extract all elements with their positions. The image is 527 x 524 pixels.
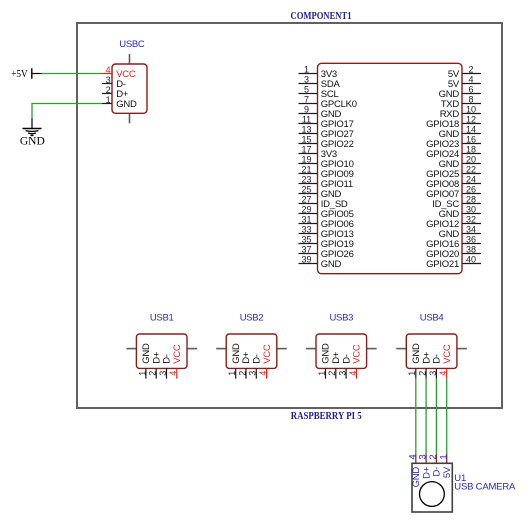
- svg-text:2: 2: [148, 371, 158, 376]
- svg-text:19: 19: [301, 154, 311, 164]
- svg-text:31: 31: [301, 214, 311, 224]
- USBC pin 2 (D+): [102, 85, 129, 100]
- svg-text:4: 4: [168, 371, 178, 376]
- wire USBC pin 1 to GND: [32, 104, 102, 119]
- svg-text:3: 3: [248, 371, 258, 376]
- USB3 pin 4 (VCC): [348, 344, 363, 379]
- IC pin 37 (GPIO26): [299, 244, 354, 260]
- USBC pin 1 (GND): [102, 95, 137, 110]
- IC pin 32 (GPIO12): [426, 214, 481, 230]
- USB1 pin 4 (VCC): [168, 344, 183, 379]
- USB1 pin 3 (D-): [158, 354, 173, 379]
- U1 pin 2 (D-) stub and number: [428, 454, 439, 464]
- svg-text:USB3: USB3: [329, 313, 353, 324]
- svg-text:1: 1: [407, 371, 417, 376]
- USB4 pin 3 (D-): [428, 354, 443, 379]
- IC pin 23 (GPIO11): [299, 174, 353, 190]
- connector USB3: [306, 313, 377, 379]
- IC pin 9 (GND): [299, 104, 342, 120]
- IC pin 26 (GPIO07): [426, 184, 481, 200]
- IC pin 28 (ID_SC): [432, 194, 481, 210]
- IC pin 38 (GPIO20): [426, 244, 481, 260]
- USB2 pin 3 (D-): [248, 354, 263, 379]
- IC pin 33 (GPIO13): [299, 224, 354, 240]
- IC pin 31 (GPIO06): [299, 214, 354, 230]
- IC pin 30 (GND): [439, 204, 481, 220]
- IC pin 1 (3V3): [299, 64, 337, 80]
- IC pin 24 (GPIO08): [426, 174, 481, 190]
- svg-text:4: 4: [468, 74, 473, 84]
- svg-text:3: 3: [304, 74, 309, 84]
- USB3 shield stem right: [367, 348, 377, 350]
- IC pin 35 (GPIO19): [299, 234, 354, 250]
- svg-text:38: 38: [466, 244, 476, 254]
- wire USB4 pin 2 to camera: [425, 379, 427, 454]
- svg-text:1: 1: [317, 371, 327, 376]
- sheet COMPONENT1 / RASPBERRY PI 5 outline: [77, 23, 502, 408]
- svg-text:20: 20: [466, 154, 476, 164]
- svg-text:RASPBERRY PI 5: RASPBERRY PI 5: [291, 411, 362, 422]
- USB3 pin 1 (GND): [317, 343, 332, 379]
- svg-text:21: 21: [301, 164, 311, 174]
- U1 body: [412, 463, 452, 512]
- connector USB1: [126, 313, 197, 379]
- svg-text:22: 22: [466, 164, 476, 174]
- svg-text:4: 4: [348, 371, 358, 376]
- USB3 shield stem left: [306, 348, 316, 350]
- USBC pin 3 (D-): [102, 75, 126, 90]
- svg-text:16: 16: [466, 134, 476, 144]
- IC raspberry pi 40-pin header: [299, 63, 482, 273]
- svg-text:4: 4: [438, 371, 448, 376]
- svg-text:36: 36: [466, 234, 476, 244]
- IC pin 39 (GND): [299, 254, 342, 270]
- svg-text:10: 10: [466, 104, 476, 114]
- IC pin 21 (GPIO09): [299, 164, 354, 180]
- svg-text:14: 14: [466, 124, 476, 134]
- svg-text:13: 13: [301, 124, 311, 134]
- svg-text:30: 30: [466, 204, 476, 214]
- svg-text:11: 11: [302, 114, 311, 124]
- svg-text:23: 23: [301, 174, 311, 184]
- svg-text:3: 3: [106, 75, 111, 85]
- IC pin 18 (GPIO24): [426, 144, 481, 160]
- svg-text:1: 1: [304, 64, 309, 74]
- svg-text:12: 12: [466, 114, 476, 124]
- camera U1 USB CAMERA: [407, 454, 516, 512]
- svg-text:4: 4: [106, 65, 111, 75]
- IC pin 36 (GPIO16): [426, 234, 481, 250]
- svg-text:28: 28: [466, 194, 476, 204]
- USB4 body: [406, 334, 457, 368]
- wire USB4 pin 4 to camera: [446, 379, 448, 454]
- wire +5V to USBC pin 4: [42, 73, 102, 75]
- IC pin 14 (GND): [439, 124, 481, 140]
- USB2 pin 4 (VCC): [258, 344, 273, 379]
- power symbol +5V: [11, 68, 42, 80]
- IC pin 19 (GPIO10): [299, 154, 354, 170]
- connector USB4: [396, 313, 467, 379]
- IC pin 2 (5V): [448, 64, 481, 80]
- svg-text:32: 32: [466, 214, 476, 224]
- svg-text:5: 5: [304, 84, 309, 94]
- svg-text:26: 26: [466, 184, 476, 194]
- svg-text:USBC: USBC: [119, 39, 145, 50]
- svg-text:15: 15: [301, 134, 311, 144]
- IC pin 6 (GND): [439, 84, 481, 100]
- IC pin 27 (ID_SD): [299, 194, 348, 210]
- svg-text:GND: GND: [116, 99, 137, 110]
- wire USB4 pin 3 to camera: [435, 379, 437, 454]
- svg-text:2: 2: [237, 371, 247, 376]
- svg-text:VCC: VCC: [172, 344, 183, 364]
- USB3 pin 2 (D+): [327, 351, 342, 379]
- svg-text:24: 24: [466, 174, 476, 184]
- USB1 body: [136, 334, 187, 368]
- IC pin 34 (GND): [439, 224, 481, 240]
- U1 pin 4 (GND) stub and number: [407, 454, 418, 464]
- IC pin 10 (RXD): [440, 104, 481, 120]
- IC pin 13 (GPIO27): [299, 124, 354, 140]
- svg-text:27: 27: [301, 194, 311, 204]
- svg-text:6: 6: [468, 84, 473, 94]
- IC pin 20 (GND): [439, 154, 481, 170]
- U1 pin 1 (5V) stub and number: [438, 454, 449, 464]
- USB3 pin 3 (D-): [338, 354, 353, 379]
- svg-text:VCC: VCC: [262, 344, 273, 364]
- USB2 body: [226, 334, 277, 368]
- USB2 pin 2 (D+): [237, 351, 252, 379]
- svg-text:29: 29: [301, 204, 311, 214]
- svg-text:2: 2: [468, 64, 473, 74]
- svg-text:17: 17: [301, 144, 311, 154]
- svg-text:GND: GND: [321, 259, 342, 270]
- svg-text:USB CAMERA: USB CAMERA: [454, 482, 516, 493]
- USB4 shield stem right: [457, 348, 467, 350]
- svg-text:40: 40: [466, 254, 476, 264]
- connector USB2: [216, 313, 287, 379]
- USBC shield stem top: [129, 54, 131, 64]
- IC pin 11 (GPIO17): [299, 114, 354, 130]
- svg-text:2: 2: [327, 371, 337, 376]
- svg-text:4: 4: [258, 371, 268, 376]
- USB3 body: [316, 334, 367, 368]
- svg-text:1: 1: [438, 454, 449, 459]
- svg-text:VCC: VCC: [352, 344, 363, 364]
- connector USBC: [102, 39, 147, 123]
- IC pin 15 (GPIO22): [299, 134, 354, 150]
- svg-text:34: 34: [466, 224, 476, 234]
- svg-text:USB4: USB4: [420, 313, 444, 324]
- U1 pin 3 (D+) stub and number: [418, 454, 429, 464]
- IC pin 4 (5V): [448, 74, 481, 90]
- svg-text:+5V: +5V: [11, 69, 28, 80]
- svg-text:25: 25: [301, 184, 311, 194]
- USB1 pin 1 (GND): [137, 343, 152, 379]
- svg-text:37: 37: [301, 244, 311, 254]
- svg-text:2: 2: [418, 371, 428, 376]
- USB2 pin 1 (GND): [227, 343, 242, 379]
- USB1 pin 2 (D+): [148, 351, 163, 379]
- svg-text:35: 35: [301, 234, 311, 244]
- USB4 pin 1 (GND): [407, 343, 422, 379]
- svg-text:39: 39: [301, 254, 311, 264]
- USB2 shield stem right: [277, 348, 287, 350]
- wire USB4 pin 1 to camera: [415, 379, 417, 454]
- USB1 shield stem right: [187, 348, 197, 350]
- svg-text:8: 8: [468, 94, 473, 104]
- USB4 pin 4 (VCC): [438, 344, 453, 379]
- IC pin 25 (GND): [299, 184, 342, 200]
- svg-text:1: 1: [106, 95, 111, 105]
- svg-text:VCC: VCC: [442, 344, 453, 364]
- svg-text:3: 3: [338, 371, 348, 376]
- IC pin 22 (GPIO25): [426, 164, 481, 180]
- svg-text:33: 33: [301, 224, 311, 234]
- IC pin 3 (SDA): [299, 74, 341, 90]
- USB1 shield stem left: [126, 348, 136, 350]
- USBC pin 4 (VCC): [102, 65, 136, 80]
- IC body: [318, 63, 463, 273]
- svg-text:1: 1: [137, 371, 147, 376]
- U1 lens circle: [420, 482, 445, 507]
- USBC shield stem bottom: [129, 113, 131, 123]
- IC pin 16 (GPIO23): [426, 134, 481, 150]
- ground GND: [23, 119, 42, 136]
- IC pin 7 (GPCLK0): [299, 94, 357, 110]
- IC pin 12 (GPIO18): [426, 114, 481, 130]
- svg-text:USB1: USB1: [150, 313, 174, 324]
- IC pin 40 (GPIO21): [426, 254, 481, 270]
- svg-text:7: 7: [304, 94, 309, 104]
- IC pin 29 (GPIO05): [299, 204, 354, 220]
- svg-text:3: 3: [428, 371, 438, 376]
- svg-text:USB2: USB2: [240, 313, 264, 324]
- svg-text:COMPONENT1: COMPONENT1: [291, 11, 352, 22]
- svg-text:9: 9: [304, 104, 309, 114]
- svg-text:GND: GND: [20, 135, 45, 147]
- USB4 pin 2 (D+): [418, 351, 433, 379]
- USBC body: [112, 64, 147, 113]
- IC pin 8 (TXD): [441, 94, 481, 110]
- USB2 shield stem left: [216, 348, 226, 350]
- svg-text:3: 3: [158, 371, 168, 376]
- USB4 shield stem left: [396, 348, 406, 350]
- svg-text:2: 2: [106, 85, 111, 95]
- IC pin 17 (3V3): [299, 144, 337, 160]
- svg-text:18: 18: [466, 144, 476, 154]
- IC pin 5 (SCL): [299, 84, 339, 100]
- svg-text:1: 1: [227, 371, 237, 376]
- svg-text:5V: 5V: [442, 466, 453, 478]
- svg-text:GPIO21: GPIO21: [426, 259, 459, 270]
